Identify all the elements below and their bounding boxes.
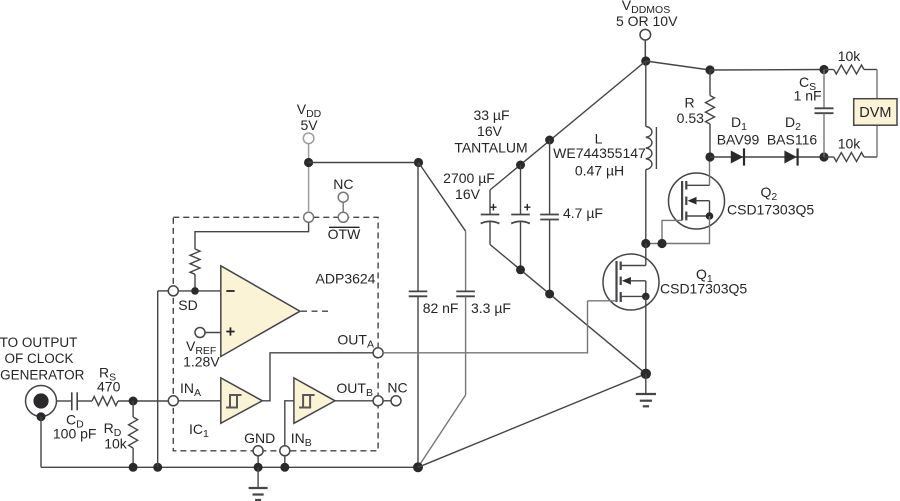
node SD junction [191,287,199,295]
node R top [705,65,714,74]
node diode row left [705,152,714,161]
svg-text:3.3 µF: 3.3 µF [471,300,511,316]
capacitor 82nF branch [409,163,428,468]
wire VDDMOS to R top [646,61,710,70]
wire OUTA to Q1 gate [383,301,587,353]
comparator dashed output stub [301,310,330,312]
wire switch node horizontal [646,243,662,245]
supply VDD 5V terminal [303,133,314,212]
node CS top [819,65,828,74]
pin INB [280,446,290,468]
pin OUTA [373,348,383,358]
node switch-Q2gate [657,239,666,248]
wire inductor to switch node [645,170,647,244]
wire cap-bank top fan [490,61,646,190]
wire Q1 gate lead [588,300,617,302]
wire R top to CS top [710,69,824,72]
resistor RS [92,396,118,405]
svg-text:+: + [524,201,531,215]
svg-text:1.28V: 1.28V [183,354,220,370]
label D1 BAV99 [717,114,760,148]
svg-text:NC: NC [387,380,407,396]
node fan 4.7uF bottom [545,290,554,299]
svg-text:+: + [490,201,497,215]
svg-text:100 pF: 100 pF [53,426,97,442]
wire pull-up to SD node [194,274,196,291]
svg-text:OF CLOCK: OF CLOCK [4,351,73,366]
svg-text:R: R [684,95,694,111]
svg-text:33 µF: 33 µF [473,107,509,123]
wire NC to OTW stub [342,202,344,212]
node rail-bottom junction [413,462,423,472]
svg-text:TANTALUM: TANTALUM [454,140,527,156]
label R 0.53 [677,95,704,127]
resistor 10k bottom [824,125,877,161]
svg-text:1 nF: 1 nF [794,88,822,104]
svg-text:NC: NC [333,176,353,192]
resistor internal pull-up [190,249,200,274]
node GND-rail [254,463,263,472]
svg-text:CSD17303Q5: CSD17303Q5 [660,281,747,297]
pin SD [168,286,178,296]
svg-text:2700 µF: 2700 µF [443,170,495,186]
resistor RD [129,401,138,467]
schmitt glyph U1B [226,394,242,409]
wire SD shutdown to rail [158,291,169,467]
node fan 33uF top [516,161,525,170]
svg-text:CSD17303Q5: CSD17303Q5 [727,202,814,218]
label clock generator text [0,335,85,383]
label RS 470 [97,364,121,394]
pin OUTB [373,396,383,406]
pin OTW [338,212,348,222]
wire INB pin to buffer C input [285,401,294,446]
wire bottom junction to ground node [418,374,646,468]
node VDDMOS junction [641,56,650,65]
pin GND [253,446,263,468]
label CS 1 nF [794,74,822,104]
wire buffer C output to OUTB [335,400,373,402]
label CD 100 pF [53,412,97,442]
svg-text:5V: 5V [300,117,318,133]
wire ground rail [41,466,418,468]
svg-text:16V: 16V [477,123,503,139]
pin INA [168,396,178,406]
capacitor 2700uF [481,190,500,245]
diode D1 BAV99 [731,148,744,165]
svg-text:GENERATOR: GENERATOR [0,368,85,383]
svg-text:TO OUTPUT: TO OUTPUT [0,335,77,350]
node diode row right [819,152,828,161]
svg-text:10k: 10k [838,48,862,64]
svg-text:4.7 µF: 4.7 µF [563,205,603,221]
pin NC above OTW [338,192,348,202]
svg-text:0.53: 0.53 [677,110,704,126]
wire BNC shield to ground rail [37,412,46,467]
wire VDD rail [309,162,419,164]
wire diode row [710,156,824,158]
IC1 ADP3624 dashed box [173,217,378,450]
capacitor 4.7uF [540,140,559,294]
supply VDDMOS terminal [640,29,651,61]
inductor L [646,127,657,170]
label VREF 1.28V [183,338,220,370]
DVM meter box [854,99,897,126]
wire VDDMOS to inductor [645,61,647,127]
svg-text:BAS116: BAS116 [767,132,818,148]
svg-text:BAV99: BAV99 [717,132,760,148]
node fan 33uF bottom [516,265,525,274]
wire switch node to Q1 drain [645,244,647,266]
svg-text:470: 470 [97,379,121,395]
wire INA pin to buffer B input [178,400,221,402]
svg-text:10k: 10k [838,136,862,152]
capacitor 33uF tantalum [511,165,530,270]
label 33uF 16V TANTALUM [454,107,527,156]
node INB-rail [280,463,289,472]
wire BNC to CD [57,400,72,402]
vref source circle [195,328,221,338]
ground symbol right [636,374,656,407]
buffer U1B schmitt [221,378,262,423]
wire SD node to comparator minus input [178,290,221,292]
wire cap-bank bottom fan [490,245,646,374]
svg-text:OTW: OTW [328,226,361,242]
pin VDD top [304,212,314,222]
node RD-rail [129,463,138,472]
op-amp comparator U1A [221,266,300,357]
label VDDMOS 5 OR 10V [616,0,678,29]
svg-text:GND: GND [244,430,275,446]
svg-text:5 OR 10V: 5 OR 10V [616,13,678,29]
label RD 10k [104,420,128,452]
wire buffer B output to OUTA [262,353,373,401]
label OTW with overline [328,226,361,242]
svg-text:10k: 10k [104,436,128,452]
wire OUTB to NC [383,400,391,402]
resistor R 0.53 [706,70,715,157]
node input junction [129,397,138,406]
svg-text:WE744355147: WE744355147 [553,145,646,161]
wire VDD pin internal to pull-up resistor [195,217,309,249]
wire Q2 source down to switch node [662,216,710,244]
capacitor CD [72,392,92,410]
connector J1 clock input [26,386,57,417]
node fan 4.7uF top [545,136,554,145]
capacitor CS 1nF [815,70,834,158]
schmitt glyph U1C [299,394,315,409]
svg-text:L: L [595,131,603,147]
comparator plus sign [226,327,234,335]
diode D2 BAS116 [784,148,797,165]
label D2 BAS116 [767,114,818,148]
transistor Q1 CSD17303Q5 [603,254,659,310]
resistor 10k top [824,65,877,99]
label L WE744355147 0.47uH [553,131,646,179]
svg-text:16V: 16V [455,186,481,202]
transistor Q2 CSD17303Q5 [669,162,725,230]
node VDD junction [304,158,313,167]
node VDD rail right [414,158,423,167]
wire Q2 gate to switch node [662,220,682,243]
wire Q1 source to ground node [645,296,647,373]
svg-text:SD: SD [178,297,197,313]
label 2700uF 16V [443,170,495,202]
node SD-rail [153,463,162,472]
svg-text:82 nF: 82 nF [423,300,459,316]
svg-text:DVM: DVM [859,105,891,121]
svg-text:ADP3624: ADP3624 [316,270,376,286]
wire RS to INA pin [118,400,168,402]
node ground junction right [641,369,651,379]
capacitor 3.3uF branch [418,163,475,468]
label VDD 5V [297,101,322,133]
comparator minus sign [226,290,234,292]
buffer U1C schmitt [294,378,335,423]
node switch-inductor [641,239,650,248]
ground symbol below GND pin [249,467,268,500]
svg-text:0.47 µH: 0.47 µH [575,163,624,179]
pin NC at OUTB [391,396,401,406]
